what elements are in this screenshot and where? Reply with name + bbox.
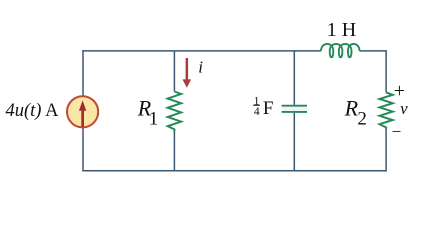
inductor L (1 H)	[321, 44, 360, 57]
wire left below source	[82, 128, 84, 172]
svg-text:1 H: 1 H	[327, 19, 356, 41]
capacitor C (1/4 F)	[282, 107, 307, 112]
wire capacitor branch top	[293, 51, 295, 105]
svg-text:v: v	[400, 99, 408, 118]
wire bottom	[83, 170, 386, 172]
current source circle	[67, 96, 98, 127]
svg-text:i: i	[198, 58, 203, 77]
label 1/4 F	[253, 96, 273, 120]
current source arrow	[79, 100, 86, 126]
wire top (inductor to top-right corner)	[360, 50, 387, 52]
wire R1 branch top	[173, 51, 175, 92]
wire right below R2	[385, 130, 387, 172]
wire capacitor branch bottom	[293, 113, 295, 171]
wire R1 branch bottom	[173, 132, 175, 171]
wire top (left node to inductor)	[83, 50, 321, 52]
svg-text:4u(t) A: 4u(t) A	[6, 101, 60, 121]
svg-text:F: F	[263, 98, 274, 119]
svg-text:R: R	[344, 95, 359, 120]
wire right above R2	[385, 50, 387, 92]
wire left above source	[82, 50, 84, 96]
resistor R1	[168, 92, 181, 133]
svg-text:4: 4	[254, 106, 260, 118]
resistor R2	[380, 92, 393, 129]
svg-text:2: 2	[357, 109, 367, 130]
current arrow label i	[183, 58, 204, 88]
svg-text:−: −	[392, 122, 402, 141]
svg-text:1: 1	[149, 109, 159, 130]
